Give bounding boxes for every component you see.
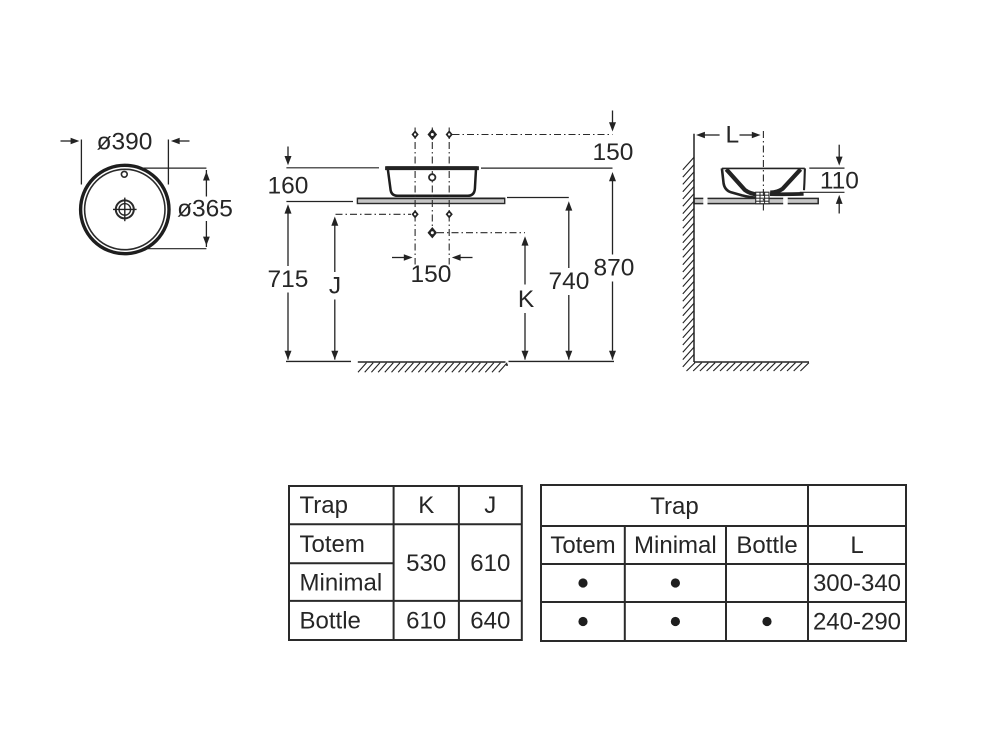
svg-text:Trap: Trap <box>650 493 698 520</box>
svg-text:ø365: ø365 <box>177 196 233 223</box>
svg-text:Totem: Totem <box>550 532 615 559</box>
svg-text:530: 530 <box>406 550 446 577</box>
svg-text:870: 870 <box>594 255 635 282</box>
svg-text:J: J <box>329 273 341 300</box>
svg-text:715: 715 <box>268 266 309 293</box>
svg-text:Minimal: Minimal <box>634 532 717 559</box>
svg-text:ø390: ø390 <box>97 129 153 156</box>
svg-text:160: 160 <box>268 173 309 200</box>
svg-text:J: J <box>484 492 496 519</box>
svg-text:Totem: Totem <box>300 531 365 558</box>
svg-text:300-340: 300-340 <box>813 570 901 597</box>
svg-text:150: 150 <box>593 139 634 166</box>
svg-text:610: 610 <box>406 608 446 635</box>
svg-text:110: 110 <box>820 168 859 195</box>
svg-text:K: K <box>518 286 535 313</box>
svg-text:Trap: Trap <box>300 492 348 519</box>
svg-text:L: L <box>725 122 739 149</box>
svg-text:Bottle: Bottle <box>736 532 797 559</box>
svg-text:Minimal: Minimal <box>300 570 383 597</box>
svg-text:Bottle: Bottle <box>300 608 361 635</box>
svg-text:L: L <box>850 532 863 559</box>
svg-text:240-290: 240-290 <box>813 609 901 636</box>
svg-text:610: 610 <box>470 550 510 577</box>
svg-text:640: 640 <box>470 608 510 635</box>
svg-text:740: 740 <box>549 268 590 295</box>
svg-text:150: 150 <box>411 261 452 288</box>
svg-text:K: K <box>418 492 434 519</box>
